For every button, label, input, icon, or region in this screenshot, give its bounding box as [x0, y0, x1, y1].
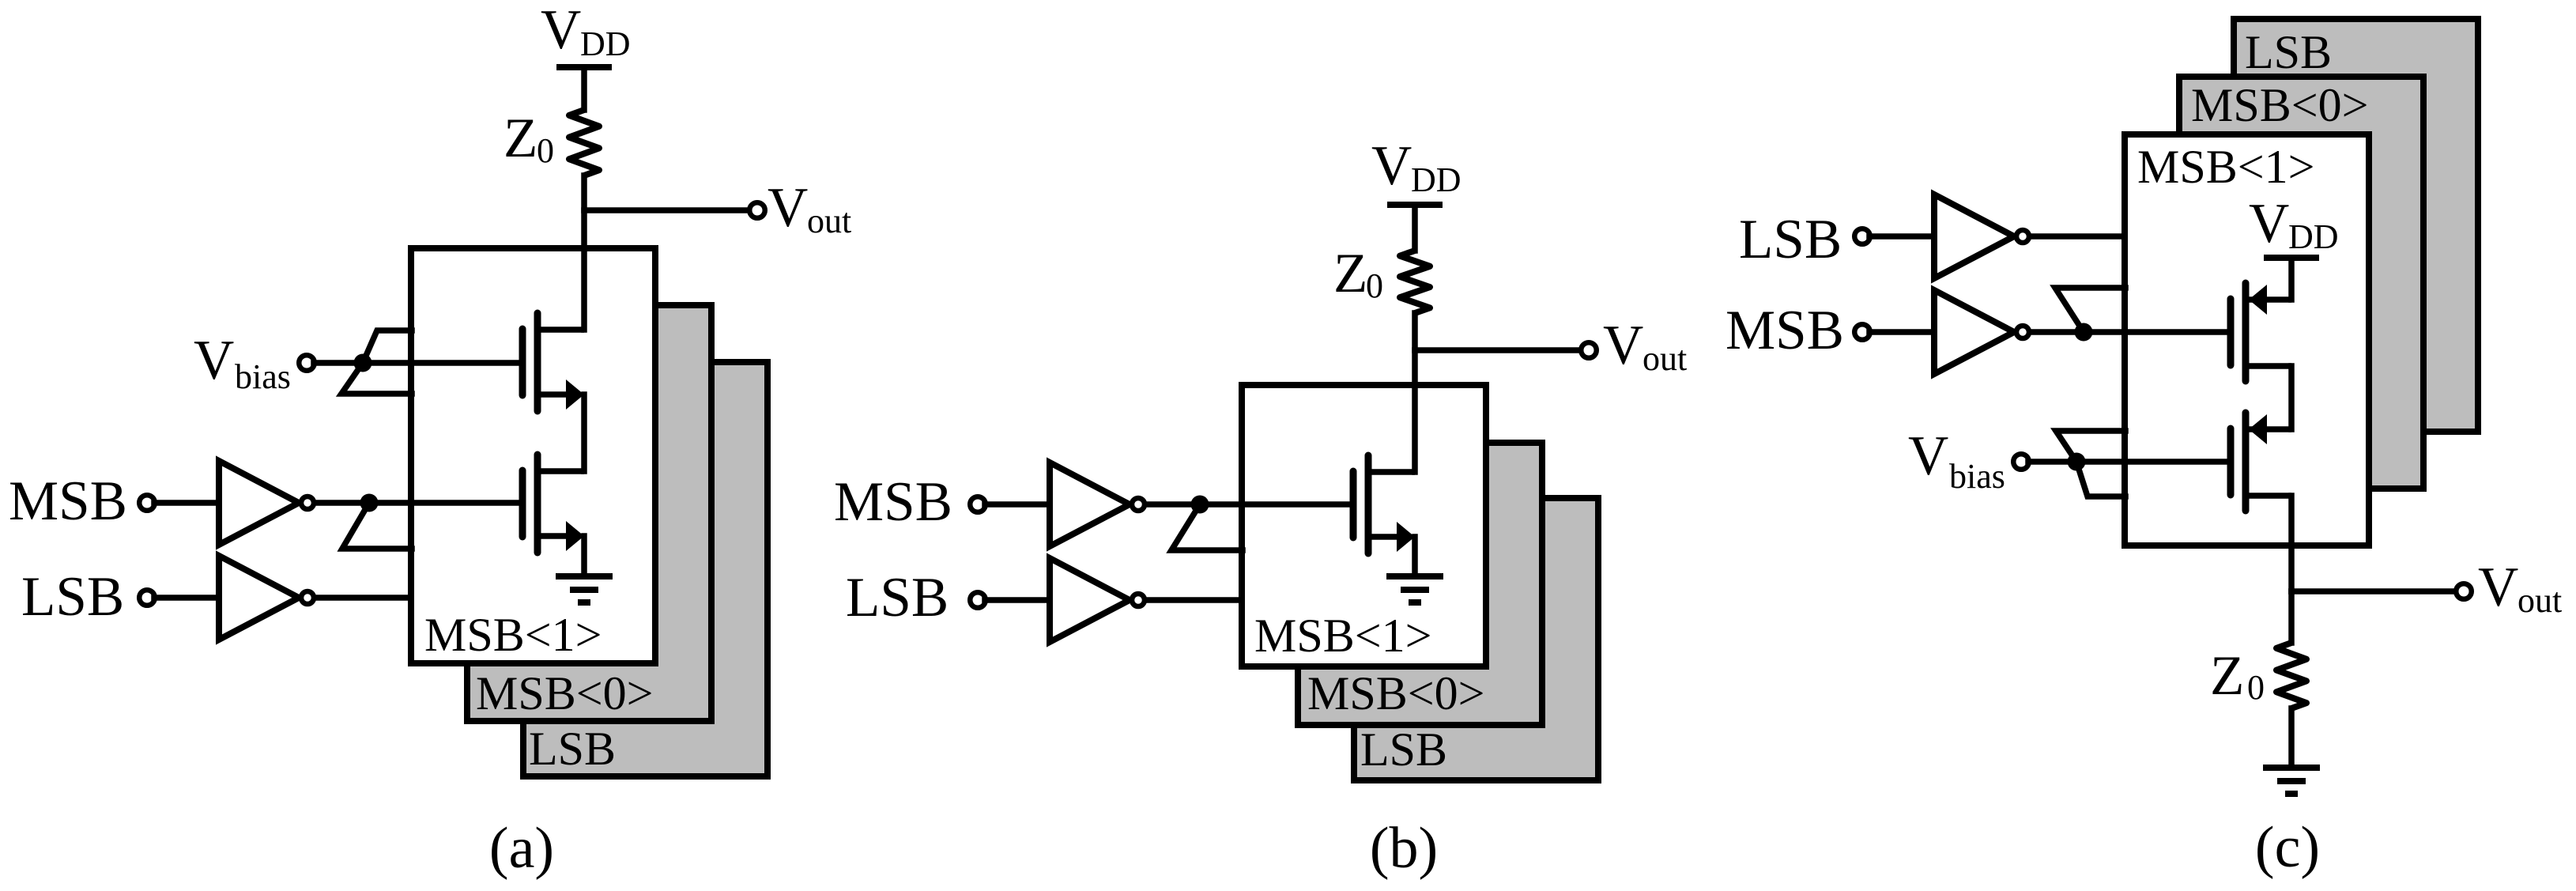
svg-text:V: V — [2249, 193, 2289, 255]
terminal MSB (b) — [970, 496, 986, 512]
svg-text:V: V — [541, 0, 581, 61]
inverter LSB (c) — [1934, 194, 2014, 278]
terminal Vbias (c) — [2013, 454, 2029, 470]
wire LSB to inverter (b) — [985, 597, 1050, 603]
terminal Vout (c) — [2456, 583, 2472, 599]
svg-text:MSB<1>: MSB<1> — [424, 609, 602, 661]
nmos cascode transistor M1 (a) — [519, 329, 526, 395]
svg-text:LSB: LSB — [846, 567, 949, 629]
svg-text:LSB: LSB — [21, 566, 124, 628]
svg-text:MSB: MSB — [1726, 300, 1844, 361]
panel (a) stacked slice box MSB&lt;0&gt; — [467, 305, 711, 721]
wire Vbias to gate (a) — [314, 360, 521, 366]
svg-text:MSB<1>: MSB<1> — [1254, 610, 1431, 662]
wire M2 drain to node Vout (c) — [2288, 496, 2295, 591]
terminal LSB (b) — [970, 592, 986, 608]
svg-text:out: out — [2518, 581, 2562, 620]
wire resistor to ground (c) — [2288, 708, 2295, 768]
feedthrough jog lower Vbias (c) — [2076, 462, 2125, 496]
wire LSB to inverter (a) — [154, 595, 219, 601]
svg-text:LSB: LSB — [529, 723, 616, 775]
panel (c) stacked slice box MSB&lt;0&gt; — [2179, 77, 2423, 489]
wire LSB inverter to slice box (b) — [1148, 597, 1242, 603]
junction Vbias (a) — [354, 354, 372, 372]
svg-text:V: V — [1371, 135, 1412, 197]
terminal Vout (a) — [749, 202, 765, 218]
terminal MSB (a) — [139, 495, 155, 511]
wire Vbias to gate M2 (c) — [2028, 459, 2228, 465]
terminal Vout (b) — [1581, 342, 1597, 358]
svg-text:V: V — [194, 330, 234, 391]
panel (a) slice box MSB&lt;1&gt; — [411, 248, 655, 663]
svg-text:0: 0 — [537, 131, 554, 170]
feedthrough jog upper Vbias (c) — [2056, 431, 2125, 462]
svg-text:(c): (c) — [2255, 815, 2320, 880]
svg-text:0: 0 — [1366, 266, 1383, 305]
wire M1 source to M2 drain (a) — [581, 395, 587, 471]
panel (b) slice box MSB&lt;1&gt; — [1242, 385, 1486, 666]
panel (a) stacked slice box LSB — [523, 362, 768, 776]
svg-text:MSB: MSB — [9, 470, 127, 532]
svg-text:LSB: LSB — [1360, 723, 1447, 776]
pmos transistor M1 (c) — [2227, 299, 2235, 365]
svg-text:Z: Z — [2210, 645, 2244, 707]
terminal MSB (c) — [1854, 324, 1870, 340]
wire VDD to resistor (b) — [1412, 205, 1418, 251]
ground (c) — [2263, 765, 2320, 771]
wire LSB to inverter (c) — [1869, 233, 1934, 240]
resistor Z0 (a) — [569, 110, 599, 176]
svg-text:MSB<1>: MSB<1> — [2137, 141, 2314, 193]
svg-text:0: 0 — [2247, 668, 2265, 707]
wire MSB to inverter (c) — [1869, 329, 1934, 335]
svg-text:out: out — [1643, 339, 1687, 378]
svg-text:V: V — [768, 177, 808, 239]
wire resistor to drain / node Vout (b) — [1412, 313, 1418, 472]
resistor Z0 (b) — [1400, 251, 1430, 313]
svg-text:(b): (b) — [1370, 816, 1438, 881]
ground (b) — [1386, 573, 1443, 580]
nmos switch transistor M1 (b) — [1350, 471, 1357, 538]
junction MSB (c) — [2075, 323, 2093, 342]
ground (a) — [556, 573, 613, 580]
wire LSB inverter to slice box (c) — [2032, 233, 2125, 240]
svg-text:V: V — [1603, 315, 1643, 376]
inverter MSB (b) — [1050, 462, 1130, 546]
wire Vout stub (c) — [2291, 588, 2454, 595]
wire inverter to gate (b) — [1148, 501, 1352, 508]
svg-text:(a): (a) — [489, 816, 554, 881]
panel (c) stacked slice box LSB — [2234, 19, 2478, 432]
wire Vout stub (b) — [1415, 347, 1579, 353]
terminal Vbias (a) — [299, 355, 315, 371]
svg-text:Z: Z — [504, 108, 537, 169]
power rail VDD (b) — [1387, 202, 1443, 208]
svg-text:MSB<0>: MSB<0> — [2191, 79, 2368, 131]
inverter MSB (c) — [1934, 290, 2014, 374]
wire M1 drain to M2 source (c) — [2288, 366, 2295, 429]
wire M2 source to ground (a) — [581, 536, 587, 576]
terminal LSB (c) — [1854, 228, 1870, 244]
terminal LSB (a) — [139, 590, 155, 606]
svg-text:MSB: MSB — [834, 471, 952, 533]
svg-text:DD: DD — [1411, 160, 1461, 199]
wire Vout to resistor (c) — [2288, 591, 2295, 643]
svg-text:MSB<0>: MSB<0> — [1307, 667, 1484, 719]
power rail VDD (c) — [2264, 255, 2319, 261]
inverter LSB (b) — [1050, 558, 1130, 642]
panel (c) slice box MSB&lt;1&gt; — [2125, 134, 2369, 546]
wire Vout stub (a) — [584, 207, 747, 213]
power rail VDD (a) — [556, 64, 612, 70]
junction MSB (a) — [360, 494, 379, 512]
svg-text:DD: DD — [580, 25, 631, 63]
feedthrough jog MSB (b) — [1171, 504, 1243, 550]
panel (b) stacked slice box MSB&lt;0&gt; — [1298, 443, 1542, 725]
wire MSB inverter to gate M1 (c) — [2032, 329, 2228, 335]
feedthrough jog MSB (c) — [2055, 288, 2125, 332]
feedthrough jog lower Vbias (a) — [341, 363, 412, 394]
svg-text:DD: DD — [2288, 217, 2339, 256]
nmos switch transistor M2 (a) — [519, 470, 526, 537]
feedthrough jog MSB (a) — [342, 503, 412, 549]
wire MSB to inverter (a) — [154, 500, 219, 506]
wire inverter to gate M2 (a) — [317, 500, 521, 506]
wire VDD to resistor (a) — [581, 67, 587, 110]
svg-text:LSB: LSB — [1739, 209, 1842, 270]
wire M1 source to ground (b) — [1412, 537, 1418, 576]
svg-text:V: V — [2478, 557, 2518, 618]
svg-text:Z: Z — [1333, 243, 1367, 304]
wire VDD to M1 source (c) — [2288, 258, 2295, 300]
resistor Z0 (c) — [2276, 643, 2306, 708]
feedthrough jog upper Vbias (a) — [363, 330, 412, 363]
svg-text:out: out — [807, 202, 851, 240]
svg-text:V: V — [1908, 425, 1948, 487]
pmos transistor M2 (c) — [2227, 429, 2235, 495]
wire resistor to drain / node Vout (a) — [581, 176, 587, 330]
svg-text:bias: bias — [1949, 457, 2005, 496]
wire LSB inverter to slice box (a) — [317, 595, 411, 601]
svg-text:LSB: LSB — [2245, 26, 2332, 78]
junction Vbias (c) — [2068, 453, 2086, 471]
panel (b) stacked slice box LSB — [1354, 498, 1598, 780]
inverter MSB (a) — [219, 461, 299, 545]
junction MSB (b) — [1191, 496, 1209, 514]
wire MSB to inverter (b) — [985, 501, 1050, 508]
inverter LSB (a) — [219, 556, 299, 640]
svg-text:MSB<0>: MSB<0> — [476, 667, 653, 719]
svg-text:bias: bias — [235, 357, 291, 396]
